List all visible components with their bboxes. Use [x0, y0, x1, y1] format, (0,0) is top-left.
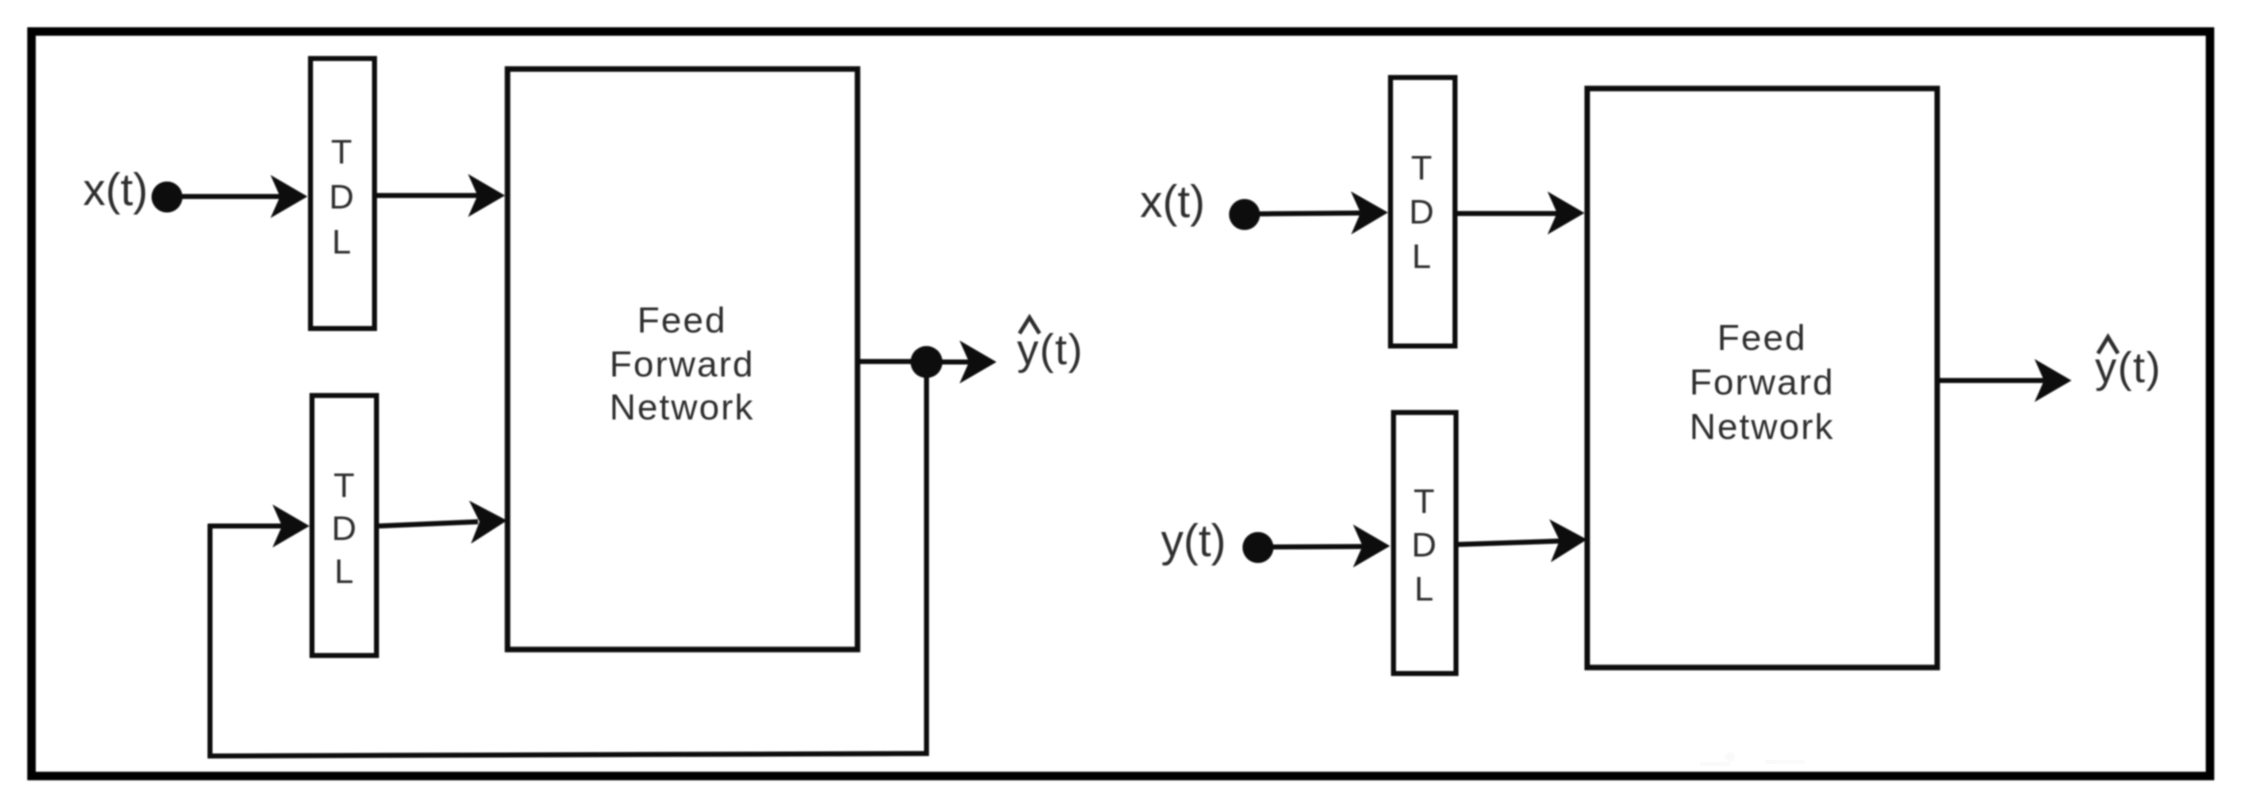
- node: x(t) input dot right: [1229, 199, 1260, 230]
- svg-text:Feed: Feed: [1717, 317, 1807, 358]
- wire: TDL1 to FFN1 with arrow: [375, 174, 505, 217]
- svg-text:T: T: [1411, 150, 1432, 188]
- svg-text:T: T: [1413, 483, 1434, 521]
- svg-text:Forward: Forward: [1689, 362, 1834, 403]
- svg-text:D: D: [1409, 194, 1434, 232]
- node: x(t) input dot left: [152, 182, 183, 213]
- label TDL1 text: [329, 134, 354, 262]
- wire: x(t) to TDL1 with arrow: [167, 175, 308, 218]
- svg-text:Network: Network: [1689, 406, 1834, 447]
- svg-text:T: T: [331, 134, 352, 172]
- svg-text:T: T: [333, 467, 354, 505]
- svg-text:L: L: [334, 553, 353, 591]
- svg-text:x(t): x(t): [83, 164, 148, 215]
- svg-text:D: D: [332, 510, 357, 548]
- svg-text:L: L: [332, 224, 351, 262]
- wire: y(t) to TDL4 with arrow: [1258, 525, 1390, 568]
- node: y(t) input dot: [1243, 532, 1274, 563]
- label TDL3 text: [1409, 150, 1434, 277]
- svg-text:Network: Network: [609, 387, 754, 428]
- svg-text:D: D: [1412, 527, 1437, 565]
- svg-text:Forward: Forward: [609, 344, 754, 385]
- svg-text:L: L: [1414, 571, 1433, 609]
- wire: junction to output arrow: [927, 341, 997, 384]
- block TDL3: [1391, 78, 1456, 347]
- svg-text:y(t): y(t): [2095, 344, 2162, 392]
- faint artifact near bottom: [1700, 752, 1805, 766]
- label TDL4 text: [1412, 483, 1437, 609]
- block TDL2: [312, 396, 377, 656]
- block TDL4: [1394, 413, 1457, 674]
- label FFN1 text: [609, 300, 754, 428]
- label TDL2 text: [332, 467, 357, 591]
- block Feed Forward Network 1: [508, 69, 858, 650]
- svg-text:y(t): y(t): [1161, 515, 1226, 566]
- wire: feedback down from junction: [924, 362, 929, 754]
- wire: TDL2 to FFN1 with arrow: [379, 499, 508, 544]
- svg-text:y(t): y(t): [1017, 326, 1084, 374]
- wire: FFN1 output to junction: [858, 359, 926, 364]
- wire: TDL3 to FFN2 with arrow: [1455, 192, 1585, 235]
- node: output junction dot: [911, 346, 943, 378]
- block Feed Forward Network 2: [1587, 89, 1937, 668]
- svg-text:L: L: [1412, 238, 1431, 276]
- wire: FFN2 output arrow: [1936, 359, 2072, 402]
- wire: feedback into TDL2 with arrow: [208, 505, 310, 548]
- block TDL1: [311, 59, 375, 329]
- wire: feedback up to TDL2 level: [208, 524, 213, 758]
- svg-text:x(t): x(t): [1140, 176, 1205, 227]
- wire: feedback bottom horizontal: [208, 754, 930, 757]
- svg-text:Feed: Feed: [637, 300, 727, 341]
- label y-hat(t) left hat: [1020, 318, 1040, 334]
- wire: x(t) to TDL3 with arrow: [1245, 191, 1389, 234]
- svg-text:D: D: [329, 179, 354, 217]
- wire: TDL4 to FFN2 with arrow: [1457, 518, 1588, 562]
- label y-hat(t) right hat: [2098, 337, 2118, 354]
- label FFN2 text: [1689, 317, 1834, 447]
